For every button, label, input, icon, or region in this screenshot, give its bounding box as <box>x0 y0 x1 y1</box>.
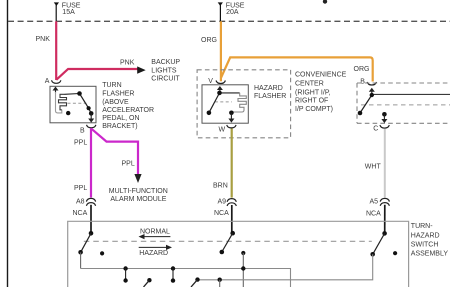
svg-text:SWITCH: SWITCH <box>411 242 439 249</box>
svg-text:NORMAL: NORMAL <box>140 228 170 235</box>
svg-text:CONVENIENCE: CONVENIENCE <box>295 72 347 79</box>
svg-text:A5: A5 <box>370 199 379 206</box>
svg-text:15A: 15A <box>62 9 75 16</box>
svg-text:(RIGHT I/P,: (RIGHT I/P, <box>295 89 331 96</box>
svg-text:HAZARD: HAZARD <box>139 250 168 257</box>
svg-text:NCA: NCA <box>73 210 88 217</box>
svg-text:PNK: PNK <box>120 60 135 67</box>
svg-text:WHT: WHT <box>365 163 382 170</box>
svg-text:PPL: PPL <box>122 161 135 168</box>
svg-text:MULTI-FUNCTION: MULTI-FUNCTION <box>109 188 168 195</box>
svg-text:C: C <box>373 125 378 132</box>
svg-text:BACKUP: BACKUP <box>151 59 180 66</box>
svg-text:W: W <box>219 126 226 133</box>
svg-text:NCA: NCA <box>366 211 381 218</box>
svg-text:HAZARD: HAZARD <box>254 85 283 92</box>
svg-text:(ABOVE: (ABOVE <box>102 99 129 106</box>
svg-text:I/P COMPT): I/P COMPT) <box>295 106 333 113</box>
svg-text:ORG: ORG <box>354 66 370 73</box>
svg-text:A: A <box>45 78 50 85</box>
svg-text:TURN-: TURN- <box>411 223 433 230</box>
svg-text:ORG: ORG <box>201 37 217 44</box>
svg-text:PPL: PPL <box>74 185 87 192</box>
svg-text:V: V <box>208 78 213 85</box>
svg-text:BRN: BRN <box>213 183 228 190</box>
svg-text:BRACKET): BRACKET) <box>102 123 137 130</box>
svg-text:NCA: NCA <box>214 210 229 217</box>
svg-text:PPL: PPL <box>74 140 87 147</box>
svg-text:A9: A9 <box>218 199 227 206</box>
svg-text:LIGHTS: LIGHTS <box>151 67 177 74</box>
svg-text:TURN: TURN <box>102 82 121 89</box>
svg-text:FLASHER: FLASHER <box>102 90 134 97</box>
svg-text:HAZARD: HAZARD <box>411 232 440 239</box>
svg-text:ACCELERATOR: ACCELERATOR <box>102 107 154 114</box>
svg-text:CIRCUIT: CIRCUIT <box>151 76 180 83</box>
svg-text:B: B <box>80 128 85 135</box>
svg-text:A8: A8 <box>76 199 85 206</box>
svg-text:ASSEMBLY: ASSEMBLY <box>411 251 449 258</box>
svg-text:RIGHT OF: RIGHT OF <box>295 98 328 105</box>
svg-text:PNK: PNK <box>36 36 51 43</box>
svg-text:ALARM MODULE: ALARM MODULE <box>110 196 166 203</box>
svg-text:FLASHER: FLASHER <box>254 93 286 100</box>
svg-text:PEDAL, ON: PEDAL, ON <box>102 115 139 122</box>
svg-text:CENTER: CENTER <box>295 81 324 88</box>
svg-text:20A: 20A <box>226 9 239 16</box>
svg-text:B: B <box>360 78 365 85</box>
